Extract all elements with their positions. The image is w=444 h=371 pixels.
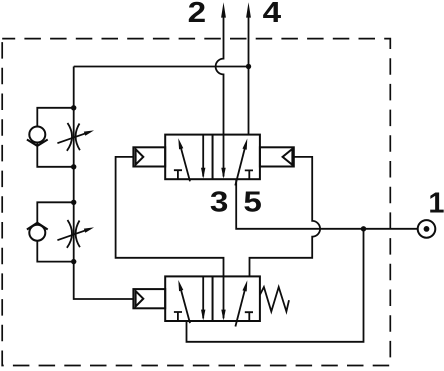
svg-text:2: 2 bbox=[188, 0, 207, 29]
svg-text:1: 1 bbox=[428, 187, 444, 219]
svg-text:3: 3 bbox=[210, 186, 229, 218]
svg-text:5: 5 bbox=[243, 186, 262, 218]
svg-text:4: 4 bbox=[263, 0, 282, 29]
